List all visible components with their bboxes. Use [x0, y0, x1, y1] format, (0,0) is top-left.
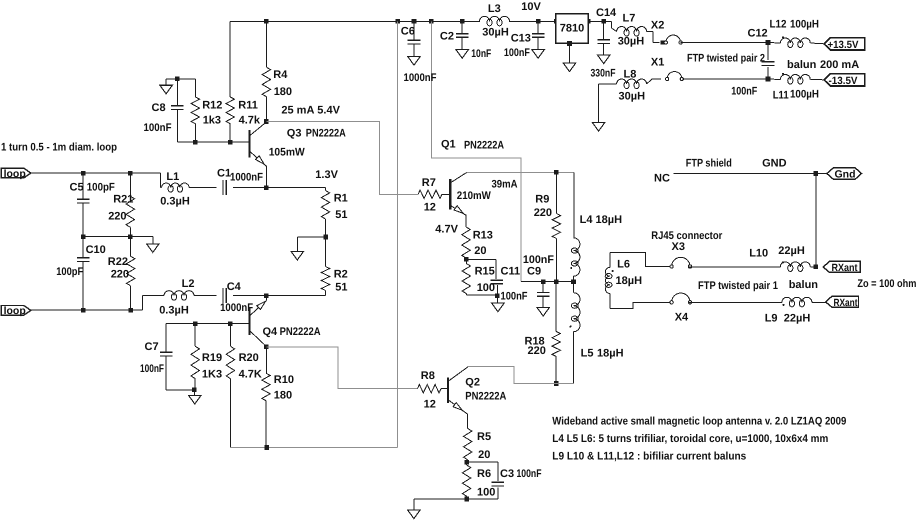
svg-text:4.7V: 4.7V [435, 224, 458, 236]
svg-text:Q4: Q4 [263, 326, 279, 338]
label 1.3V [315, 169, 338, 181]
svg-text:R9: R9 [535, 193, 549, 205]
svg-text:100nF: 100nF [523, 254, 554, 266]
port +13.5V [824, 38, 865, 52]
svg-text:FTP shield: FTP shield [686, 157, 732, 169]
svg-text:loop: loop [4, 168, 26, 180]
wire GND [674, 173, 827, 175]
svg-text:C6: C6 [401, 26, 415, 38]
label Zo [857, 278, 916, 290]
capacitor C8 [144, 79, 184, 142]
wire L3 out [509, 20, 538, 22]
svg-text:balun: balun [787, 59, 817, 71]
capacitor C7 [140, 324, 194, 390]
svg-text:1K3: 1K3 [202, 368, 222, 380]
twisted pair X3 [670, 257, 692, 268]
wire bottom rail [230, 447, 397, 449]
svg-text:1000nF: 1000nF [230, 172, 263, 184]
svg-text:R1: R1 [334, 193, 348, 205]
svg-text:210mW: 210mW [457, 190, 492, 202]
label note2 [552, 433, 828, 445]
resistor R20 [226, 324, 262, 448]
node RXant1 [814, 265, 819, 270]
capacitor C3 [467, 462, 542, 499]
resistor R4 [262, 21, 292, 121]
node R19 gnd [192, 388, 197, 393]
wire Q1 collector [467, 171, 574, 173]
svg-text:Zo = 100 ohm: Zo = 100 ohm [857, 278, 916, 290]
svg-text:C1: C1 [217, 168, 231, 180]
svg-text:200 mA: 200 mA [820, 59, 859, 71]
svg-text:RXant: RXant [832, 262, 858, 274]
svg-text:20: 20 [474, 245, 486, 257]
capacitor C5 [70, 173, 116, 237]
node base R11 [228, 140, 233, 145]
inductor L4 [570, 172, 622, 281]
svg-text:180: 180 [274, 389, 292, 401]
svg-text:+13.5V: +13.5V [828, 39, 859, 51]
ground R19 [189, 390, 202, 404]
node Q4 emitter [264, 293, 269, 298]
node loop1 C5 [81, 171, 86, 176]
svg-text:R22: R22 [108, 256, 128, 268]
transistor Q1 [450, 173, 466, 227]
node mid C5C10 [81, 234, 86, 239]
resistor R10 [262, 347, 294, 448]
svg-text:R4: R4 [273, 69, 288, 81]
svg-text:L9: L9 [765, 312, 778, 324]
svg-text:51: 51 [335, 281, 347, 293]
svg-text:C7: C7 [145, 341, 159, 353]
svg-text:R12: R12 [202, 100, 222, 112]
svg-text:L4: L4 [580, 214, 594, 226]
inductor L8 [617, 69, 647, 103]
node base R19 [193, 321, 198, 326]
svg-text:1000nF: 1000nF [404, 72, 437, 84]
svg-text:L11: L11 [773, 90, 789, 102]
svg-text:R7: R7 [422, 177, 436, 189]
node C12 top [766, 40, 771, 45]
port -13.5V [824, 74, 865, 88]
node R6 bottom [464, 497, 469, 502]
svg-text:100nF: 100nF [517, 468, 542, 480]
node R9 R18 [554, 279, 559, 284]
resistor R21 [108, 173, 134, 237]
svg-text:FTP twisted pair 2: FTP twisted pair 2 [687, 52, 765, 64]
svg-text:balun: balun [789, 279, 819, 291]
svg-text:R2: R2 [334, 269, 348, 281]
label FTP shield [686, 157, 732, 169]
label 10V [521, 1, 541, 13]
ground mid left [147, 237, 160, 253]
wire Q4 to R8 [266, 347, 417, 389]
svg-text:R13: R13 [473, 230, 493, 242]
resistor R2 [266, 237, 347, 296]
inductor L1 [160, 171, 190, 207]
label Q4 [263, 326, 321, 338]
svg-text:30µH: 30µH [482, 26, 509, 38]
svg-text:L7: L7 [623, 13, 636, 25]
svg-text:C8: C8 [152, 102, 166, 114]
svg-text:100: 100 [477, 486, 495, 498]
node C9 top [541, 279, 546, 284]
inductor L7 [612, 13, 647, 48]
svg-text:Q3: Q3 [287, 128, 302, 140]
svg-text:25 mA: 25 mA [281, 104, 314, 116]
label balun1 [789, 279, 819, 291]
label FTP1 [698, 280, 778, 292]
svg-text:PN2222A: PN2222A [306, 128, 346, 140]
wire X4 L9 [689, 301, 782, 303]
svg-text:4.7k: 4.7k [239, 115, 261, 127]
wire Gnd to RXant [815, 174, 817, 267]
svg-text:L6: L6 [617, 259, 630, 271]
svg-text:L2: L2 [182, 278, 195, 290]
svg-text:L8: L8 [624, 69, 637, 81]
wire X2 to C12 [681, 42, 768, 44]
svg-text:10V: 10V [521, 1, 541, 13]
resistor R11 [226, 21, 261, 142]
inductor L3 [480, 3, 510, 38]
wire X3 L10 [689, 266, 781, 268]
svg-text:180: 180 [274, 86, 292, 98]
wire mid rail right [297, 237, 326, 251]
svg-text:R10: R10 [274, 374, 294, 386]
wire 10V drop [397, 21, 399, 447]
wire Q3 to R7 [266, 122, 417, 195]
wire Q2 collector [468, 367, 574, 384]
capacitor C1 [189, 168, 266, 196]
wire 10V top rail [230, 20, 611, 22]
wire Q4 base rail [166, 323, 248, 325]
node C11 gnd [495, 294, 500, 299]
regulator U1 7810 [556, 14, 589, 72]
svg-text:X2: X2 [651, 19, 664, 31]
resistor R13 [462, 227, 493, 259]
svg-text:RXant: RXant [834, 297, 858, 309]
svg-text:5.4V: 5.4V [317, 104, 340, 116]
wire C1 to R1 [266, 187, 325, 189]
svg-text:C2: C2 [440, 30, 454, 42]
svg-text:30µH: 30µH [619, 91, 646, 103]
wire mid rail left [83, 236, 153, 238]
svg-text:100nF: 100nF [731, 86, 757, 98]
node bottom R10 [264, 445, 269, 450]
svg-text:220: 220 [108, 210, 126, 222]
resistor R9 [534, 172, 561, 281]
port loop1 [1, 168, 31, 180]
node loop2 C10 [81, 308, 86, 313]
svg-text:18µH: 18µH [597, 348, 624, 360]
svg-text:1 turn 0.5 - 1m diam. loop: 1 turn 0.5 - 1m diam. loop [1, 141, 117, 153]
label note3 [552, 451, 746, 463]
port RXant1 [823, 261, 860, 274]
twisted pair X2 [647, 19, 683, 44]
svg-text:18µH: 18µH [596, 214, 623, 226]
transistor Q2 [448, 367, 468, 429]
node rail junctions [264, 19, 606, 24]
capacitor C14 [591, 7, 618, 80]
inductor L5 [570, 282, 624, 384]
svg-text:100pF: 100pF [87, 181, 115, 193]
resistor R1 [321, 188, 347, 237]
resistor R5 [464, 429, 492, 463]
label note1 [552, 415, 846, 427]
label Q1 [441, 139, 504, 152]
svg-text:R11: R11 [238, 100, 258, 112]
svg-text:Wideband active small magnetic: Wideband active small magnetic loop ante… [552, 415, 846, 427]
svg-text:7810: 7810 [560, 23, 584, 35]
port loop2 [1, 305, 31, 317]
svg-text:12: 12 [424, 202, 436, 214]
svg-text:R19: R19 [202, 352, 222, 364]
twisted pair X4 [670, 293, 692, 324]
svg-text:C10: C10 [86, 244, 106, 256]
svg-text:X1: X1 [651, 57, 664, 69]
svg-text:L10: L10 [749, 248, 768, 260]
svg-text:C12: C12 [748, 28, 768, 40]
svg-text:loop: loop [4, 305, 26, 317]
node Q3 collector [264, 119, 269, 124]
svg-text:L5: L5 [581, 348, 594, 360]
wire rail to L4 tap [431, 21, 521, 281]
svg-text:PN2222A: PN2222A [280, 326, 321, 338]
node loop1 R21 [128, 171, 133, 176]
node C12 bot [766, 77, 771, 82]
svg-text:C11: C11 [501, 266, 521, 278]
node C8 top [175, 77, 180, 82]
svg-text:L1: L1 [166, 171, 179, 183]
label 25mA [281, 104, 340, 116]
svg-text:1.3V: 1.3V [315, 169, 338, 181]
resistor R12 [191, 79, 222, 142]
transistor Q3 [249, 122, 266, 188]
inductor L2 [143, 278, 195, 317]
svg-text:12: 12 [424, 399, 436, 411]
node GND [814, 171, 819, 176]
svg-text:R5: R5 [477, 431, 491, 443]
svg-text:100nF: 100nF [140, 363, 164, 375]
svg-text:GND: GND [762, 157, 787, 169]
ground Q2 [408, 510, 421, 519]
svg-text:10nF: 10nF [471, 48, 491, 60]
ground L8 [592, 123, 605, 132]
node R5 R6 [464, 460, 469, 465]
svg-text:L3: L3 [488, 3, 501, 15]
capacitor C10 [56, 237, 106, 311]
transistor Q4 [249, 296, 266, 347]
wire loop2 [31, 296, 143, 311]
svg-text:PN2222A: PN2222A [464, 139, 504, 151]
svg-text:PN2222A: PN2222A [465, 391, 506, 403]
svg-text:220: 220 [534, 207, 552, 219]
label RJ45 [651, 230, 723, 242]
label Q3 [287, 128, 346, 140]
label GND [762, 157, 787, 169]
svg-text:220: 220 [111, 269, 129, 281]
svg-text:R21: R21 [113, 193, 133, 205]
svg-text:C4: C4 [227, 281, 242, 293]
node L4 L5 [571, 279, 576, 284]
node R18 bottom [554, 381, 559, 386]
resistor R7 [418, 177, 449, 214]
label 1turn [1, 141, 117, 153]
label 210mW [457, 190, 492, 202]
capacitor C9 [523, 254, 554, 316]
svg-text:C3: C3 [500, 468, 514, 480]
svg-text:R6: R6 [477, 468, 491, 480]
svg-text:22µH: 22µH [778, 245, 805, 257]
svg-text:100nF: 100nF [144, 122, 172, 134]
svg-text:105mW: 105mW [269, 147, 306, 159]
capacitor C12 [731, 28, 774, 98]
label 4.7V q1 [435, 224, 458, 236]
svg-text:330nF: 330nF [591, 68, 616, 80]
node loop2 R22 [128, 308, 133, 313]
node mid R21R22 [128, 234, 133, 239]
wire Q2 gnd [414, 499, 498, 510]
capacitor C2 [440, 21, 492, 60]
svg-text:L4 L5 L6: 5 turns trifiliar,: L4 L5 L6: 5 turns trifiliar, toroidal co… [552, 433, 828, 445]
resistor R6 [462, 462, 495, 499]
node base R20 [228, 321, 233, 326]
svg-text:0.3µH: 0.3µH [159, 305, 189, 317]
label 105mW [269, 147, 306, 159]
resistor R8 [417, 370, 447, 411]
label X3 [672, 241, 685, 253]
svg-text:RJ45 connector: RJ45 connector [651, 230, 723, 242]
svg-text:1k3: 1k3 [203, 115, 221, 127]
svg-text:51: 51 [335, 209, 347, 221]
svg-text:X3: X3 [672, 241, 685, 253]
label FTP2 [687, 52, 765, 64]
node R9 top [554, 170, 559, 175]
label balun2 [787, 59, 859, 71]
inductor L12 [768, 19, 824, 48]
svg-text:R8: R8 [421, 370, 435, 382]
resistor R18 [525, 282, 561, 384]
label Q2 [465, 377, 506, 403]
node Q3 emitter [264, 185, 269, 190]
svg-text:100µH: 100µH [790, 89, 819, 101]
svg-text:20: 20 [478, 449, 490, 461]
svg-text:0.3µH: 0.3µH [160, 195, 190, 207]
node mid R1R2 [324, 235, 329, 240]
label 39mA [492, 179, 518, 191]
ground mid right [291, 251, 304, 260]
svg-text:100pF: 100pF [56, 266, 83, 278]
svg-text:R20: R20 [239, 352, 259, 364]
wire Q3 base rail [177, 141, 248, 143]
capacitor C4 [194, 281, 266, 314]
ground C11 [492, 296, 505, 312]
svg-text:FTP twisted pair 1: FTP twisted pair 1 [698, 280, 778, 292]
wire C8 top link [166, 78, 195, 80]
wire X1 to C12 [682, 78, 768, 80]
svg-text:R15: R15 [475, 266, 495, 278]
svg-text:22µH: 22µH [784, 312, 811, 324]
inductor L10 [749, 245, 816, 272]
node Q4 collector [264, 345, 269, 350]
svg-text:100µH: 100µH [790, 19, 819, 31]
wire loop1 [31, 172, 161, 174]
ground C8 [160, 79, 173, 94]
svg-text:30µH: 30µH [618, 36, 645, 48]
port RXant2 [826, 296, 859, 309]
svg-text:Q2: Q2 [465, 377, 480, 389]
capacitor C6 [401, 21, 437, 84]
inductor L9 [765, 297, 826, 324]
svg-text:220: 220 [528, 345, 546, 357]
resistor R22 [108, 237, 135, 311]
svg-text:L9 L10 & L11,L12 : bifiliar: L9 L10 & L11,L12 : bifiliar current balu… [552, 451, 746, 463]
svg-text:Q1: Q1 [441, 139, 456, 151]
svg-text:C14: C14 [596, 7, 617, 19]
capacitor C13 [504, 21, 545, 59]
svg-text:C5: C5 [70, 181, 84, 193]
svg-text:39mA: 39mA [492, 179, 518, 191]
svg-text:X4: X4 [675, 312, 689, 324]
resistor R19 [191, 324, 222, 390]
twisted pair X1 [647, 57, 684, 84]
node base R12 [193, 140, 198, 145]
label NC [654, 172, 670, 184]
svg-text:NC: NC [654, 172, 670, 184]
resistor R15 [462, 259, 497, 295]
svg-text:4.7K: 4.7K [239, 368, 262, 380]
svg-text:C9: C9 [527, 266, 541, 278]
inductor L11 [768, 73, 824, 102]
svg-text:-13.5V: -13.5V [829, 75, 858, 87]
capacitor C11 [466, 259, 527, 302]
svg-text:100nF: 100nF [501, 291, 528, 303]
svg-text:18µH: 18µH [616, 275, 643, 287]
svg-text:Gnd: Gnd [835, 169, 856, 181]
svg-text:L12: L12 [770, 19, 787, 31]
svg-text:C13: C13 [511, 33, 531, 45]
port Gnd [827, 168, 862, 181]
svg-text:100nF: 100nF [504, 47, 530, 59]
node R13 R15 [464, 257, 469, 262]
inductor L6 [605, 253, 672, 309]
wire L4 tap rail [521, 281, 574, 283]
wire L8 gnd [599, 84, 617, 123]
